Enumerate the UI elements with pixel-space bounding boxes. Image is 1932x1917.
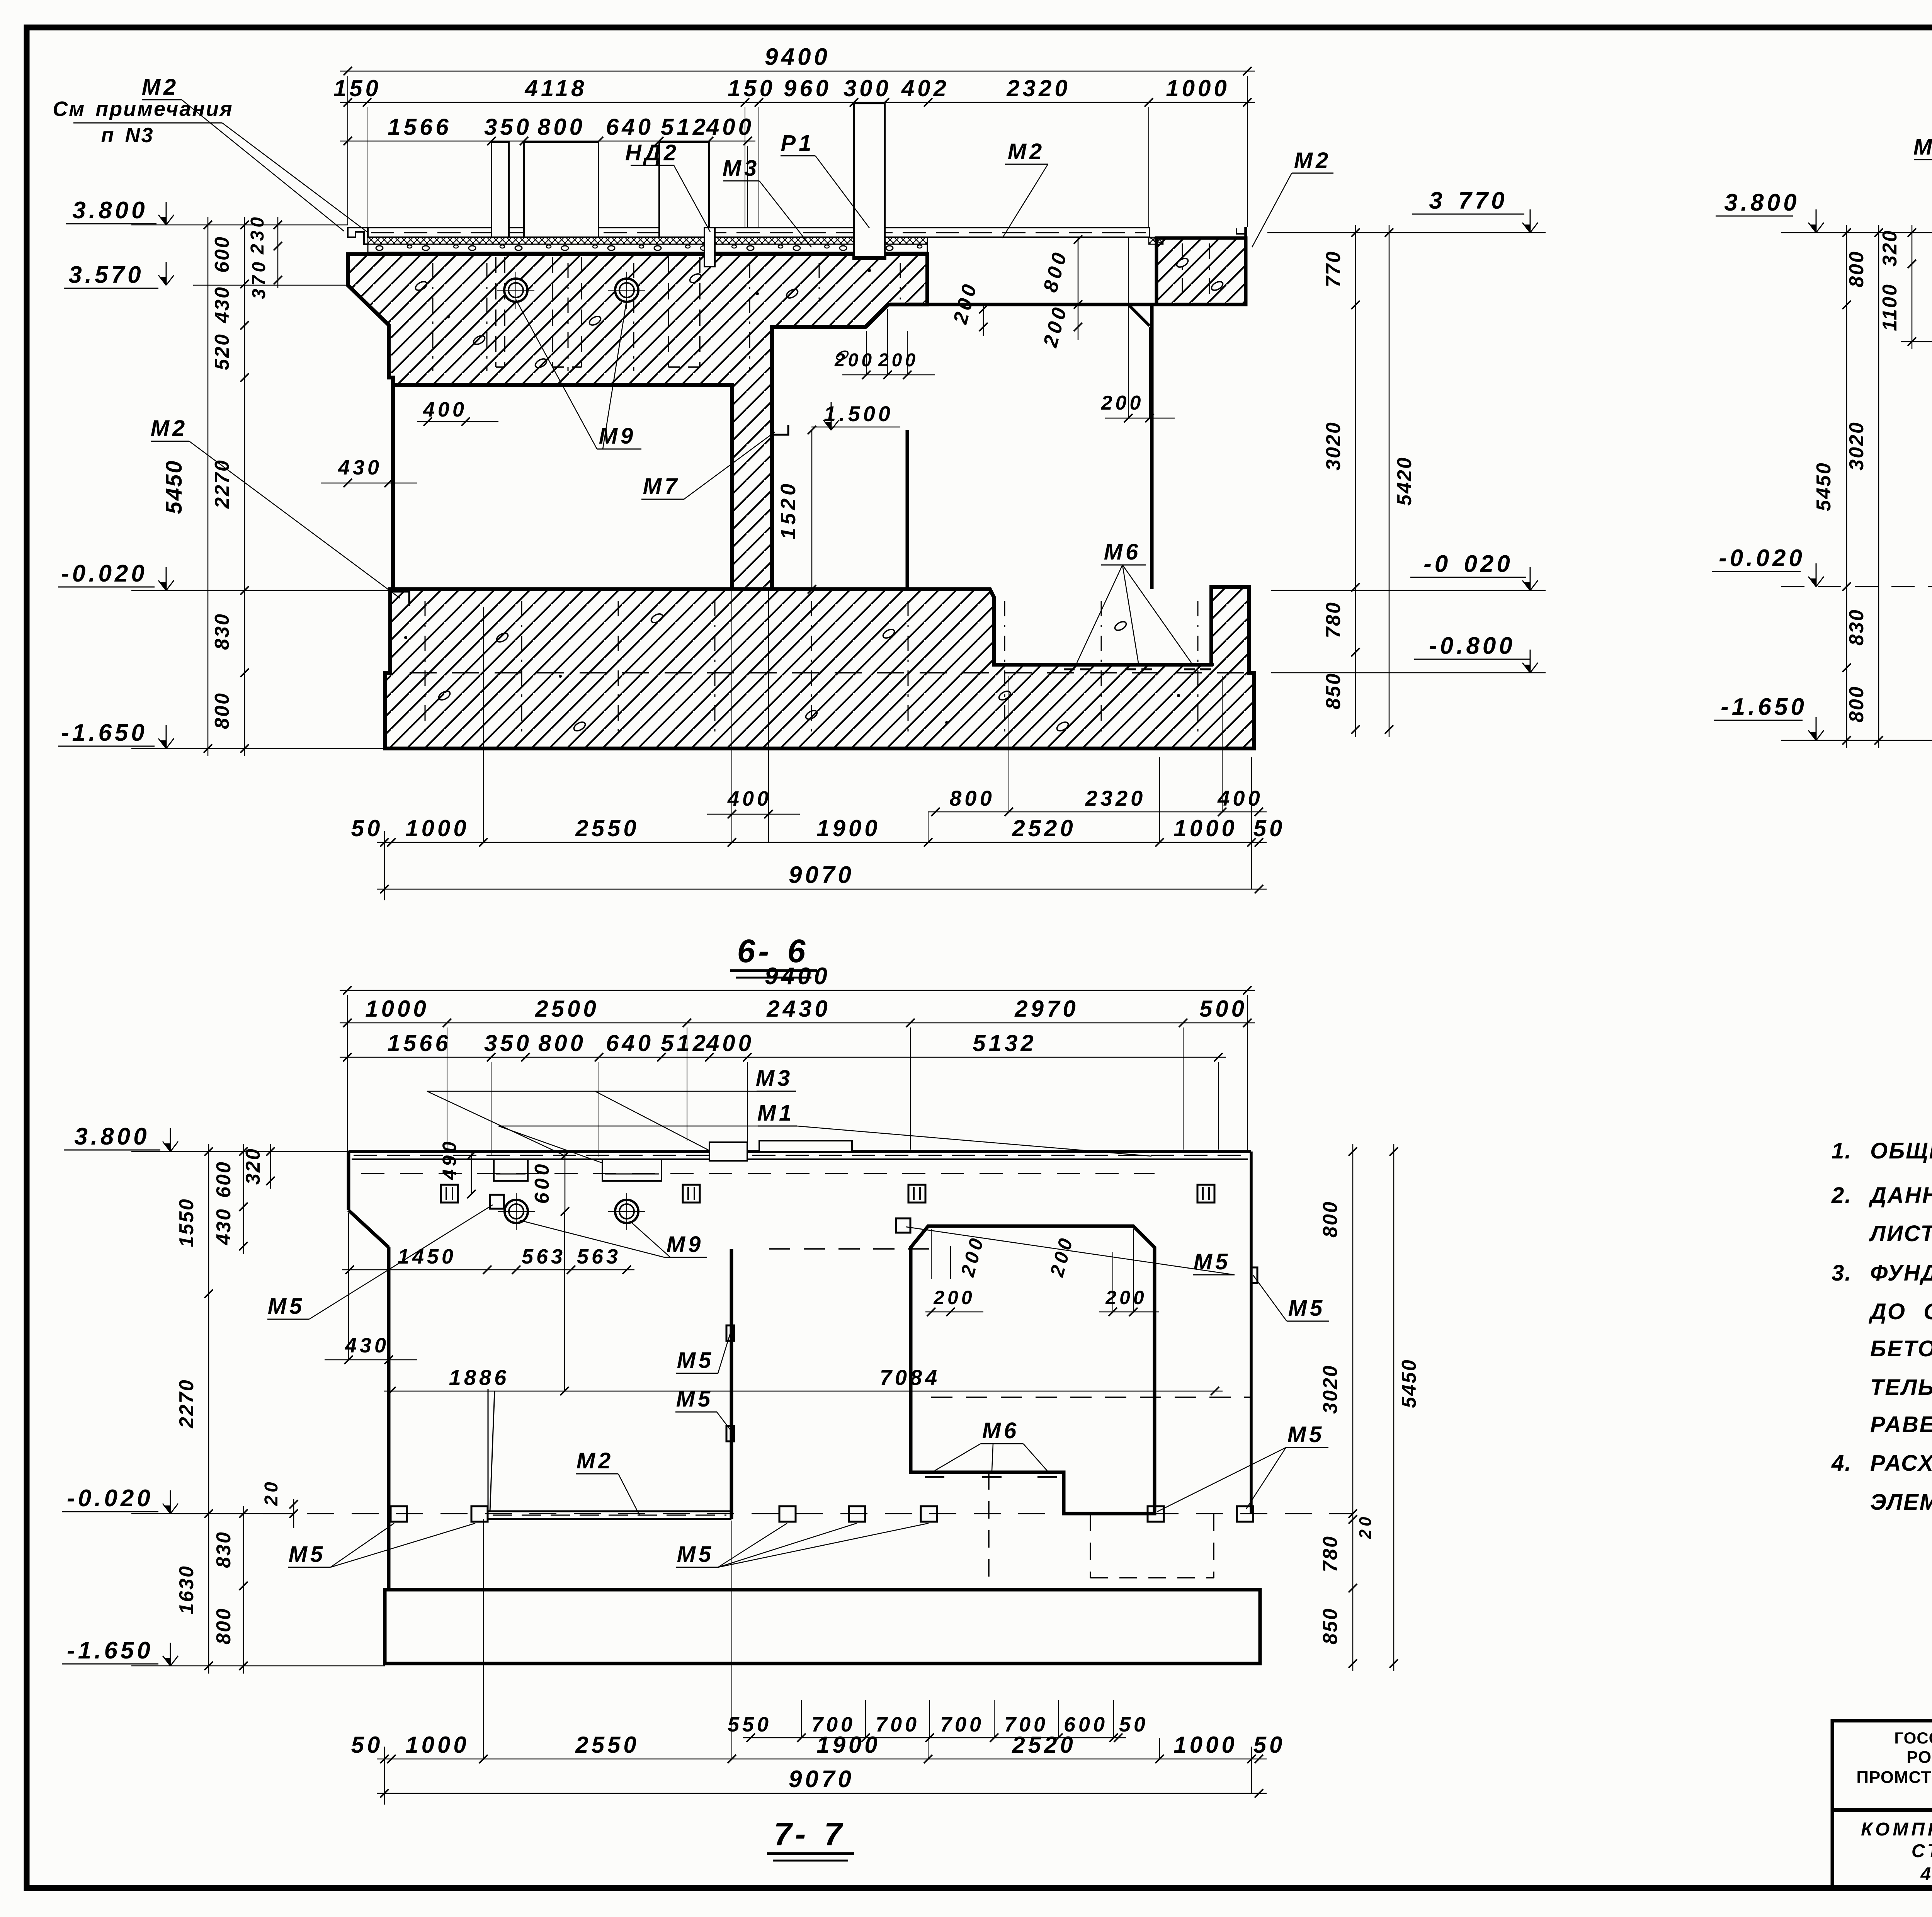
svg-text:РОСТОВСКИЙ: РОСТОВСКИЙ xyxy=(1906,1747,1932,1767)
svg-text:1100: 1100 xyxy=(1879,283,1901,331)
svg-text:ОБЩИЕ ПРИМЕЧАНИЯ ДАНЫ НА: ОБЩИЕ ПРИМЕЧАНИЯ ДАНЫ НА ЛИСТЕ КЖ-2 xyxy=(1870,1138,1932,1163)
7-7 slab inner verticals (extension lines crossing) xyxy=(483,1519,484,1759)
svg-text:2520: 2520 xyxy=(1012,815,1076,841)
svg-text:800: 800 xyxy=(1845,685,1868,723)
svg-text:1000: 1000 xyxy=(405,815,469,841)
svg-text:3.570: 3.570 xyxy=(68,262,144,288)
7-7 left level marks xyxy=(170,1128,171,1152)
7-7 upper small plates xyxy=(441,1185,458,1203)
svg-text:200: 200 xyxy=(1101,392,1144,414)
anchor post C xyxy=(659,142,709,237)
7-7 top dim extension lines xyxy=(347,995,348,1152)
svg-text:9400: 9400 xyxy=(765,963,830,990)
svg-text:2.: 2. xyxy=(1831,1183,1852,1208)
7-7 hidden line under plate xyxy=(361,1173,1155,1174)
section 6-6 left level marks xyxy=(166,202,167,225)
svg-text:М1: М1 xyxy=(757,1101,795,1126)
svg-text:830: 830 xyxy=(211,613,233,650)
svg-text:М6: М6 xyxy=(982,1418,1020,1443)
svg-text:М5: М5 xyxy=(1194,1249,1231,1274)
svg-text:-0 020: -0 020 xyxy=(1423,551,1513,577)
svg-text:М6: М6 xyxy=(1104,539,1141,565)
7-7 dims 1886 / 7084 xyxy=(384,1391,1223,1392)
insulation crosshatch band xyxy=(368,237,927,244)
7-7 central pedestal xyxy=(488,1389,489,1511)
dims 1450/563/563 xyxy=(342,1269,634,1271)
svg-text:М2: М2 xyxy=(142,75,179,100)
svg-text:М9: М9 xyxy=(667,1232,704,1257)
svg-text:1900: 1900 xyxy=(816,815,880,841)
7-7 bottom dim rows xyxy=(743,1737,1126,1738)
svg-text:600: 600 xyxy=(531,1161,553,1204)
svg-text:800: 800 xyxy=(1845,250,1868,287)
svg-text:3.800: 3.800 xyxy=(1724,189,1799,216)
plate right end notch xyxy=(1236,228,1247,234)
section 6-6 bottom slab (hatched) xyxy=(385,587,1254,748)
svg-text:М5: М5 xyxy=(677,1348,714,1373)
svg-text:640: 640 xyxy=(606,1030,654,1056)
svg-text:1.: 1. xyxy=(1832,1138,1852,1163)
svg-text:5132: 5132 xyxy=(973,1030,1036,1056)
svg-text:50: 50 xyxy=(1253,815,1286,841)
svg-text:640: 640 xyxy=(606,114,654,140)
svg-text:М7: М7 xyxy=(643,474,680,499)
svg-text:770: 770 xyxy=(1322,250,1345,287)
hidden pocket dashes under posts (6-6) xyxy=(495,257,497,367)
svg-text:960: 960 xyxy=(784,75,832,101)
title block frame xyxy=(1832,1721,1932,1888)
svg-text:830: 830 xyxy=(1845,609,1868,646)
svg-text:5450: 5450 xyxy=(1813,462,1835,511)
svg-text:СТАНЦИЯ: СТАНЦИЯ xyxy=(1912,1841,1932,1861)
M6 tabs on 7-7 pedestal xyxy=(923,1471,947,1474)
section 6-6 grout plate band (channel layer) xyxy=(368,228,1150,237)
svg-text:850: 850 xyxy=(1322,672,1345,709)
right level marks of 6-6 xyxy=(1530,209,1531,233)
svg-text:РАСХОД МАТЕРИАЛОВ И СПЕ: РАСХОД МАТЕРИАЛОВ И СПЕЦИФИКАЦИЯ ЗАКЛАДН… xyxy=(1870,1451,1932,1476)
svg-text:4.: 4. xyxy=(1831,1451,1852,1476)
svg-text:600: 600 xyxy=(211,236,233,273)
svg-text:РАВЕН 1.1 м³.: РАВЕН 1.1 м³. xyxy=(1870,1412,1932,1437)
svg-text:9070: 9070 xyxy=(789,1766,854,1793)
-0.020 dashed level line across 7-7 xyxy=(174,1513,1353,1514)
svg-text:-1.650: -1.650 xyxy=(61,720,148,746)
svg-text:-0.020: -0.020 xyxy=(61,560,148,587)
svg-text:7- 7: 7- 7 xyxy=(774,1816,845,1852)
svg-text:3.800: 3.800 xyxy=(72,197,148,224)
svg-text:400: 400 xyxy=(706,114,754,140)
section 6-6 right vertical chains xyxy=(1355,225,1356,737)
svg-text:п N3: п N3 xyxy=(101,124,154,147)
svg-text:2320: 2320 xyxy=(1085,786,1146,810)
svg-text:1000: 1000 xyxy=(1166,75,1230,101)
svg-text:ДАННЫЙ ЛИСТ РАССМАТРИВАТЬ: ДАННЫЙ ЛИСТ РАССМАТРИВАТЬ СОВМЕСТНО С xyxy=(1868,1182,1932,1208)
svg-text:500: 500 xyxy=(1199,996,1247,1022)
svg-text:400: 400 xyxy=(706,1030,754,1056)
svg-text:1.500: 1.500 xyxy=(824,401,893,426)
channel HD2 xyxy=(704,228,715,267)
svg-text:50: 50 xyxy=(351,815,383,841)
svg-text:563: 563 xyxy=(522,1245,566,1268)
svg-text:350: 350 xyxy=(484,114,532,140)
svg-text:См примечания: См примечания xyxy=(53,97,233,121)
svg-text:320: 320 xyxy=(1879,230,1901,267)
texture: aggregate blobs in hatch xyxy=(414,280,429,292)
svg-text:800: 800 xyxy=(538,1030,586,1056)
svg-text:4К-500А: 4К-500А xyxy=(1920,1864,1932,1885)
svg-text:5450: 5450 xyxy=(162,459,187,514)
section 7-7 top dim rows xyxy=(340,990,1255,991)
anchor post A xyxy=(492,142,509,237)
svg-text:512: 512 xyxy=(661,114,709,140)
svg-text:800: 800 xyxy=(949,786,995,810)
svg-text:М2: М2 xyxy=(151,416,188,441)
svg-text:М3: М3 xyxy=(1913,134,1932,160)
svg-text:1630: 1630 xyxy=(175,1565,198,1614)
svg-text:1566: 1566 xyxy=(388,114,451,140)
svg-text:800: 800 xyxy=(211,692,233,729)
svg-text:800: 800 xyxy=(213,1607,235,1645)
svg-text:ГОССТРОИ СССР: ГОССТРОИ СССР xyxy=(1894,1729,1932,1747)
svg-text:-0.020: -0.020 xyxy=(1719,545,1805,572)
svg-text:М5: М5 xyxy=(268,1294,305,1319)
svg-text:2430: 2430 xyxy=(766,996,830,1022)
svg-text:20: 20 xyxy=(1356,1514,1375,1539)
6-6 left pedestal edge below hatch xyxy=(391,385,395,589)
6-6 top dim extension lines xyxy=(347,76,348,225)
svg-text:512: 512 xyxy=(661,1030,709,1056)
svg-text:ФУНДАМЕНТ БЕТОНИРОВАТЬ ПРЕ: ФУНДАМЕНТ БЕТОНИРОВАТЬ ПРЕДВАРИТЕЛЬНО xyxy=(1870,1260,1932,1286)
svg-text:КОМПРЕССОРНАЯ: КОМПРЕССОРНАЯ xyxy=(1861,1819,1932,1840)
svg-text:2970: 2970 xyxy=(1014,996,1078,1022)
svg-text:563: 563 xyxy=(577,1245,621,1268)
M6 embedded plates in recess xyxy=(1061,663,1094,666)
svg-text:М2: М2 xyxy=(1294,148,1332,173)
square M5 right mid xyxy=(896,1218,910,1233)
svg-text:490: 490 xyxy=(439,1138,460,1180)
7-7 recessed boxes below band xyxy=(494,1159,528,1181)
svg-text:780: 780 xyxy=(1319,1535,1342,1572)
svg-text:9070: 9070 xyxy=(789,862,854,888)
slab layer hidden boundary xyxy=(410,672,1248,674)
svg-text:4118: 4118 xyxy=(524,75,587,101)
svg-text:1886: 1886 xyxy=(449,1365,510,1390)
7-7 left chains xyxy=(208,1144,209,1674)
svg-text:400: 400 xyxy=(423,398,467,421)
svg-text:1000: 1000 xyxy=(365,996,429,1022)
svg-text:700: 700 xyxy=(876,1713,920,1736)
svg-text:-1.650: -1.650 xyxy=(1721,694,1807,720)
svg-text:370: 370 xyxy=(249,259,269,299)
svg-text:430: 430 xyxy=(345,1334,389,1357)
svg-text:ТЕЛЬНОЙ УСТАНОВКИ АГРЕГАТА: ТЕЛЬНОЙ УСТАНОВКИ АГРЕГАТА. РАСХОД БЕТОН… xyxy=(1870,1374,1932,1400)
svg-text:550: 550 xyxy=(728,1713,772,1736)
svg-text:230: 230 xyxy=(247,214,268,255)
svg-text:3 770: 3 770 xyxy=(1429,187,1507,214)
7-7 right pedestal outline xyxy=(911,1226,1155,1514)
svg-text:1000: 1000 xyxy=(405,1732,469,1758)
svg-text:20: 20 xyxy=(261,1479,282,1506)
section 6-6 right white pit outline xyxy=(772,325,866,329)
svg-text:2520: 2520 xyxy=(1012,1732,1076,1758)
svg-text:-0.020: -0.020 xyxy=(67,1485,153,1512)
svg-text:М5: М5 xyxy=(676,1386,714,1412)
svg-text:ЭЛЕМЕНТОВ НА ФУНДАМЕНТ Д: ЭЛЕМЕНТОВ НА ФУНДАМЕНТ ДАНА НА ЛИСТЕ КЖ-… xyxy=(1870,1490,1932,1515)
svg-text:3020: 3020 xyxy=(1322,421,1345,471)
svg-text:200: 200 xyxy=(878,350,918,371)
7-7 bottom slab xyxy=(385,1590,1260,1664)
svg-text:830: 830 xyxy=(213,1531,235,1568)
plate left notch xyxy=(348,228,368,244)
concrete strip with dots under plate xyxy=(368,244,927,254)
svg-text:2270: 2270 xyxy=(211,459,233,509)
svg-text:1450: 1450 xyxy=(398,1245,456,1268)
section 6-6 top hatched concrete block xyxy=(348,254,927,589)
svg-text:1000: 1000 xyxy=(1173,1732,1237,1758)
svg-text:М3: М3 xyxy=(756,1066,793,1091)
svg-text:320: 320 xyxy=(242,1148,264,1185)
top edge of right white region xyxy=(928,303,1246,306)
svg-text:-1.650: -1.650 xyxy=(67,1637,153,1664)
svg-text:М2: М2 xyxy=(577,1448,614,1473)
M5 anchor squares along -0.020 line xyxy=(391,1506,407,1522)
svg-text:780: 780 xyxy=(1322,601,1345,638)
7-7 body left outline xyxy=(347,1152,350,1210)
svg-text:ДО ОТМЕТКИ 3.570. ПОСЛЕДУ: ДО ОТМЕТКИ 3.570. ПОСЛЕДУЮЩУЮ ПОДЛИВКУ xyxy=(1868,1299,1932,1324)
7-7 M9 circles xyxy=(505,1200,528,1223)
svg-text:400: 400 xyxy=(1217,786,1263,810)
anchor post B (800 wide) xyxy=(524,142,599,237)
svg-text:430: 430 xyxy=(338,456,382,479)
svg-text:ЛИСТАМИ КЖ-31, 32, 34, 35: ЛИСТАМИ КЖ-31, 32, 34, 35 xyxy=(1869,1221,1932,1246)
7-7 body right edge xyxy=(1250,1152,1253,1514)
svg-text:2550: 2550 xyxy=(575,815,639,841)
svg-text:М5: М5 xyxy=(1288,1296,1326,1321)
svg-text:700: 700 xyxy=(940,1713,984,1736)
svg-text:9400: 9400 xyxy=(765,44,830,70)
svg-text:-0.800: -0.800 xyxy=(1429,633,1515,659)
svg-text:1900: 1900 xyxy=(816,1732,880,1758)
svg-text:М5: М5 xyxy=(289,1542,326,1567)
svg-text:50: 50 xyxy=(351,1732,383,1758)
svg-text:200: 200 xyxy=(1105,1287,1147,1308)
svg-text:1520: 1520 xyxy=(777,481,800,539)
svg-text:520: 520 xyxy=(211,333,233,370)
svg-text:3020: 3020 xyxy=(1319,1364,1342,1414)
svg-text:5420: 5420 xyxy=(1393,456,1416,506)
svg-text:150: 150 xyxy=(728,75,776,101)
M5 square near circle xyxy=(490,1195,504,1209)
svg-text:3.800: 3.800 xyxy=(74,1123,150,1150)
svg-text:150: 150 xyxy=(333,75,381,101)
svg-text:М5: М5 xyxy=(1287,1422,1325,1447)
svg-text:350: 350 xyxy=(484,1030,532,1056)
chamfer at right white region top xyxy=(1128,304,1150,326)
texture: dash-dot verticals in hatch (rebar hints) xyxy=(432,263,434,371)
slab top-left notch M2 xyxy=(390,592,409,606)
svg-text:НД2: НД2 xyxy=(625,140,679,165)
svg-text:1000: 1000 xyxy=(1173,815,1237,841)
7-7 plate band xyxy=(349,1150,1251,1153)
svg-text:400: 400 xyxy=(727,787,772,810)
svg-text:БЕТОНА МАРКИ „150" ПРОИЗВЕ: БЕТОНА МАРКИ „150" ПРОИЗВЕСТИ ПОСЛЕ ОКОН… xyxy=(1870,1336,1932,1361)
svg-text:2550: 2550 xyxy=(575,1732,639,1758)
svg-text:М3: М3 xyxy=(723,156,760,181)
svg-text:1566: 1566 xyxy=(387,1030,451,1056)
svg-text:200: 200 xyxy=(933,1287,975,1308)
svg-text:800: 800 xyxy=(1319,1201,1342,1238)
svg-text:Р1: Р1 xyxy=(781,131,815,156)
svg-text:430: 430 xyxy=(211,286,233,323)
7-7 post gap xyxy=(709,1142,747,1161)
sleeve P1 xyxy=(854,104,885,258)
8-8 left level marks and chains xyxy=(1816,209,1817,233)
svg-text:850: 850 xyxy=(1319,1607,1342,1645)
svg-text:430: 430 xyxy=(213,1208,235,1245)
svg-text:402: 402 xyxy=(901,75,949,101)
svg-text:М2: М2 xyxy=(1008,139,1045,164)
svg-text:2270: 2270 xyxy=(175,1379,198,1429)
svg-text:300: 300 xyxy=(844,75,891,101)
section 6-6 right hatched block xyxy=(1156,238,1246,304)
M9 anchor pipes (circles) xyxy=(504,279,527,302)
7-7 raised pad xyxy=(759,1141,852,1152)
svg-text:50: 50 xyxy=(1253,1732,1286,1758)
svg-text:800: 800 xyxy=(537,114,585,140)
svg-text:2500: 2500 xyxy=(535,996,599,1022)
svg-text:3020: 3020 xyxy=(1845,421,1868,471)
section 6-6 left dimension chains xyxy=(207,217,209,756)
svg-text:1550: 1550 xyxy=(175,1198,198,1247)
svg-text:50: 50 xyxy=(1119,1713,1148,1736)
7-7 hidden dash lines xyxy=(769,1248,929,1250)
svg-text:600: 600 xyxy=(213,1161,235,1198)
svg-text:ПРОМСТРОЙНИИПРОЕКТ: ПРОМСТРОЙНИИПРОЕКТ xyxy=(1856,1767,1932,1787)
svg-text:5450: 5450 xyxy=(1398,1359,1420,1408)
section 6-6 : top dimension rows xyxy=(340,71,1255,72)
svg-text:М5: М5 xyxy=(677,1542,714,1567)
7-7 right chains xyxy=(1352,1144,1354,1671)
svg-text:2320: 2320 xyxy=(1006,75,1070,101)
svg-text:3.: 3. xyxy=(1832,1260,1852,1286)
